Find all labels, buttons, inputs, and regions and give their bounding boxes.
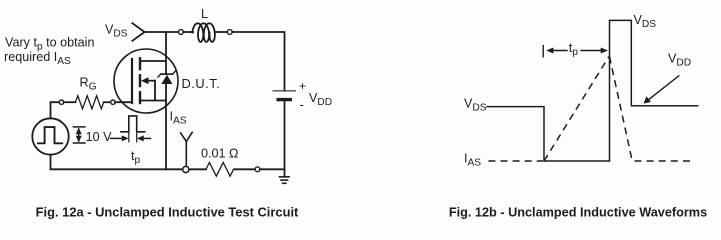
svg-text:VDD: VDD <box>668 52 691 69</box>
VDD pointer arrow <box>644 76 679 104</box>
battery VDD top plate (long) <box>273 90 295 92</box>
svg-text:10 V: 10 V <box>86 130 113 144</box>
terminal circle left of L <box>179 30 184 35</box>
resistor 0.01 ohm zigzag <box>206 162 234 176</box>
wire: battery to ground junction <box>284 100 286 177</box>
ground symbol <box>280 177 290 184</box>
resistor RG zigzag <box>75 96 103 109</box>
IAS rising dashed ramp <box>544 57 609 162</box>
wire resistor to terminal <box>234 168 255 170</box>
gate drive pulse symbol <box>121 116 145 142</box>
label VDS (input node) <box>105 23 128 40</box>
label: Vary tp to obtain required IAS <box>4 36 94 67</box>
wire: terminal to ground rail <box>260 168 285 170</box>
svg-text:L: L <box>201 7 208 21</box>
wire: drain drop from top rail <box>165 32 167 74</box>
VDS waveform solid trace <box>487 20 698 161</box>
wire: terminal to coil <box>183 31 193 33</box>
wire to RG <box>64 101 76 103</box>
10 V dimension arrow <box>73 127 85 143</box>
IAS dashed baseline left <box>488 160 543 162</box>
svg-text:RG: RG <box>80 75 97 92</box>
wire: generator top to gate node <box>51 102 60 118</box>
svg-text:VDD: VDD <box>309 91 332 108</box>
svg-text:0.01 Ω: 0.01 Ω <box>201 147 238 161</box>
MOSFET D.U.T. envelope circle <box>114 49 178 113</box>
sense node circle <box>183 166 189 172</box>
tp width arrows <box>111 135 151 141</box>
svg-text:tp: tp <box>131 149 141 166</box>
svg-text:IAS: IAS <box>170 109 187 126</box>
wire: top rail from VDS arrow to inductor terminal <box>145 31 179 33</box>
svg-text:VDS: VDS <box>105 23 128 40</box>
VDS input arrow (open arrowhead) <box>132 23 144 41</box>
wire: top rail to right corner and down to battery <box>232 32 284 91</box>
svg-text:tp: tp <box>569 41 579 58</box>
wire: terminal to gate <box>115 101 131 103</box>
IAS current arrow (open head, down) <box>181 132 193 166</box>
body zener diode (cathode up) <box>158 71 175 84</box>
svg-text:D.U.T.: D.U.T. <box>182 76 221 91</box>
wire: coil to right terminal <box>215 31 228 33</box>
svg-text:VDS: VDS <box>464 97 487 114</box>
inductor L (3 loops) <box>192 23 215 42</box>
MOSFET body connection with arrow <box>141 77 155 100</box>
battery VDD bottom plate (short thick) <box>278 98 290 101</box>
wire RG to terminal <box>104 101 111 103</box>
wire: generator bottom to bottom rail <box>51 155 207 170</box>
svg-text:Fig. 12a - Unclamped Inductive: Fig. 12a - Unclamped Inductive Test Circ… <box>36 204 299 219</box>
terminal circle left of RG <box>59 100 63 104</box>
MOSFET source lead <box>140 100 166 102</box>
svg-text:Fig. 12b - Unclamped Inductive: Fig. 12b - Unclamped Inductive Waveforms <box>449 205 707 219</box>
IAS dashed baseline right <box>635 160 696 162</box>
terminal circle right of shunt <box>255 167 260 172</box>
tp dimension (waveform) <box>543 46 608 57</box>
terminal circle right of L <box>227 30 232 35</box>
pulse generator circle <box>32 118 68 154</box>
MOSFET gate bar <box>131 59 133 103</box>
terminal circle right of RG <box>111 100 115 104</box>
svg-text:required IAS: required IAS <box>4 50 71 67</box>
MOSFET channel segments <box>139 58 141 103</box>
wire: diode anode to source junction and down to bottom rail <box>165 84 167 169</box>
svg-text:-: - <box>300 97 304 112</box>
svg-text:+: + <box>299 79 306 93</box>
pulse generator waveform symbol <box>38 127 62 143</box>
svg-text:VDS: VDS <box>634 13 657 30</box>
svg-text:IAS: IAS <box>464 151 481 168</box>
MOSFET drain lead <box>140 60 166 62</box>
IAS falling dashed edge <box>610 57 633 161</box>
